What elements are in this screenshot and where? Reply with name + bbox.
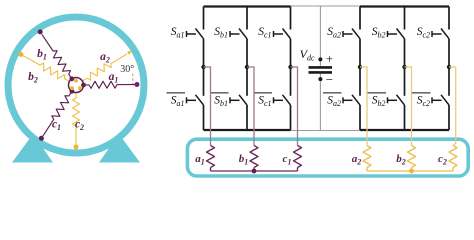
- switch Sb1-bar (bottom): [246, 67, 248, 96]
- switch Sb1 (top): [246, 7, 248, 30]
- switch Sa1-bar (bottom): [203, 67, 205, 96]
- svg-text:Vdc: Vdc: [300, 47, 315, 63]
- svg-text:Sb1: Sb1: [214, 95, 228, 109]
- machine stator ring: [8, 17, 144, 153]
- label Sa2-bar: [323, 92, 342, 94]
- switch Sc1-bar (bottom): [290, 67, 292, 96]
- phase node c1: [288, 65, 292, 69]
- svg-text:30°: 30°: [120, 64, 134, 75]
- svg-text:Sa2: Sa2: [327, 95, 341, 109]
- dc-link mid rail top (grey): [291, 5, 361, 7]
- phase node b1: [245, 65, 249, 69]
- phase node a1: [201, 65, 205, 69]
- dc node +: [318, 57, 322, 61]
- winding c2 (box): [449, 146, 457, 168]
- svg-text:b1: b1: [37, 48, 47, 62]
- dc node -: [318, 77, 322, 81]
- svg-text:a2: a2: [100, 51, 110, 65]
- svg-text:a2: a2: [352, 153, 362, 167]
- label Sc1-bar: [254, 92, 273, 94]
- wire phase b2: [405, 67, 412, 146]
- winding a2 (box): [363, 146, 371, 168]
- hub node set2: [70, 86, 74, 90]
- switch Sc2-bar (bottom): [448, 67, 450, 96]
- svg-text:a1: a1: [109, 71, 119, 85]
- svg-text:c2: c2: [438, 153, 447, 167]
- svg-text:b2: b2: [28, 71, 38, 85]
- hub node set2: [74, 79, 78, 83]
- capacitor branch wire upper: [319, 6, 321, 66]
- neutral link set 2: [367, 170, 453, 172]
- switch Sc2 (top): [448, 7, 450, 30]
- switch Sa2 (top): [359, 7, 361, 30]
- svg-text:Sc1: Sc1: [258, 26, 271, 40]
- hub star-point ring: [69, 78, 84, 93]
- svg-text:+: +: [326, 51, 333, 66]
- svg-text:Sb2: Sb2: [372, 95, 386, 109]
- svg-text:a1: a1: [195, 153, 205, 167]
- wire phase b1: [247, 67, 254, 146]
- phase node b2: [402, 65, 406, 69]
- dc-link mid rail bottom (grey): [291, 130, 361, 132]
- svg-text:Sb2: Sb2: [372, 26, 386, 40]
- winding b2 (box): [408, 146, 416, 168]
- winding b1 (machine): [42, 34, 72, 78]
- hub node set1 237deg: [70, 89, 75, 94]
- label Sb2-bar: [368, 92, 387, 94]
- phase node a2: [358, 65, 362, 69]
- svg-text:Sc2: Sc2: [417, 95, 430, 109]
- label Sa1-bar: [167, 92, 186, 94]
- svg-text:Sc2: Sc2: [417, 26, 430, 40]
- svg-text:b2: b2: [396, 153, 406, 167]
- capacitor C plates: [309, 66, 333, 69]
- winding a1 (box): [207, 146, 215, 168]
- winding b1 (box): [250, 146, 258, 168]
- svg-text:Sa1: Sa1: [171, 95, 185, 109]
- switch Sb2-bar (bottom): [404, 67, 406, 96]
- svg-text:−: −: [326, 72, 333, 87]
- switch Sb2 (top): [404, 7, 406, 30]
- svg-text:c1: c1: [283, 153, 292, 167]
- wire phase c1: [291, 67, 298, 146]
- wire phase c2: [449, 67, 456, 146]
- winding a2 (machine): [80, 54, 127, 83]
- neutral link set 1: [211, 170, 298, 172]
- winding c1 (box): [294, 146, 302, 168]
- winding a1 (machine): [84, 81, 136, 88]
- svg-text:c2: c2: [75, 119, 84, 133]
- machine stator left foot: [12, 134, 53, 163]
- hub node set1 0deg: [81, 83, 86, 88]
- svg-text:Sc1: Sc1: [258, 95, 271, 109]
- dashed angle line: [132, 74, 134, 85]
- capacitor branch wire lower: [319, 74, 321, 131]
- winding c2 (machine): [73, 90, 80, 145]
- bottom dc bus converter 2: [360, 129, 449, 131]
- svg-text:Sb1: Sb1: [214, 26, 228, 40]
- wire phase a1: [204, 67, 211, 146]
- svg-text:Sa2: Sa2: [327, 26, 341, 40]
- winding c1 (machine): [43, 91, 72, 136]
- machine stator right foot: [99, 134, 140, 163]
- switch Sa1 (top): [203, 7, 205, 30]
- switch Sa2-bar (bottom): [359, 67, 361, 96]
- wire phase a2: [360, 67, 367, 146]
- top dc bus converter 1: [204, 5, 291, 7]
- phase node c2: [447, 65, 451, 69]
- label Sc2-bar: [412, 92, 431, 94]
- hub node set1 124deg: [69, 76, 74, 81]
- top dc bus converter 2: [360, 5, 449, 7]
- svg-text:b1: b1: [239, 153, 249, 167]
- svg-text:c1: c1: [52, 119, 61, 133]
- svg-text:Sa1: Sa1: [171, 26, 185, 40]
- bottom dc bus converter 1: [204, 129, 291, 131]
- switch Sc1 (top): [290, 7, 292, 30]
- label Sb1-bar: [210, 92, 229, 94]
- winding b2 (machine): [23, 55, 72, 82]
- winding box (teal rounded): [187, 139, 468, 176]
- hub node set2: [78, 86, 82, 90]
